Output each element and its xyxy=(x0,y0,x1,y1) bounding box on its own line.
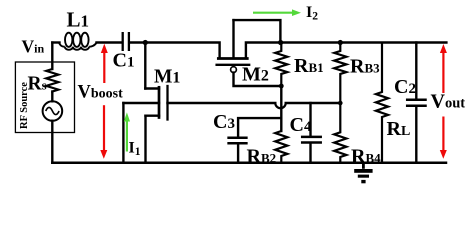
transistor M1 xyxy=(123,43,167,163)
capacitor C2 xyxy=(407,43,425,163)
node C (RB1 bottom / M2 gate / bias net) xyxy=(279,84,284,89)
wire: top rail C1 to M2 left leg xyxy=(130,43,220,58)
voltage arrow Vout down (red) xyxy=(440,117,447,159)
wire: Vin corner down to Rs xyxy=(51,43,53,70)
inductor L1 xyxy=(59,33,97,50)
node E (gate line / RB3-RB4 junction) xyxy=(338,101,343,106)
svg-text:M1: M1 xyxy=(154,66,180,87)
node B (rail / I2 loop / RB1 top) xyxy=(278,40,283,45)
wire hop over RB1-RB2 net xyxy=(275,103,285,108)
voltage arrow Vboost down (red) xyxy=(100,105,107,159)
wire: M1 gate line (right of hop) to node E xyxy=(286,102,341,104)
capacitor C4 xyxy=(302,103,321,163)
resistor RB2 xyxy=(275,131,287,163)
wire: I2 loop xyxy=(234,20,281,42)
RF Source box xyxy=(15,62,74,133)
resistor RL xyxy=(376,43,388,163)
capacitor C3 xyxy=(229,118,282,163)
voltage arrow Vboost up (red) xyxy=(101,44,108,83)
svg-text:RF Source: RF Source xyxy=(19,82,30,129)
svg-text:Rs: Rs xyxy=(28,74,47,95)
current arrow I1 (green) xyxy=(124,112,130,151)
current arrow I2 (green) xyxy=(253,9,301,16)
wire: node C down to RB2 xyxy=(280,86,282,131)
ground xyxy=(354,163,372,183)
voltage arrow Vout up (red) xyxy=(440,44,447,93)
wire: top rail left stub xyxy=(52,41,59,43)
wire: AC source to bottom rail xyxy=(51,121,53,163)
AC source circle with sine xyxy=(43,101,63,121)
svg-text:M2: M2 xyxy=(242,64,269,86)
capacitor C1 xyxy=(123,32,129,51)
wire: M1 gate line (left of hop) xyxy=(168,102,276,104)
resistor RB4 xyxy=(334,103,346,163)
transistor M2 xyxy=(217,20,282,86)
node D (rail / RB3 top) xyxy=(338,40,343,45)
resistor RB1 xyxy=(275,43,287,87)
svg-text:L1: L1 xyxy=(67,8,90,32)
wire: top rail L1 to C1 xyxy=(97,41,122,43)
resistor Rs xyxy=(46,69,58,92)
node A (C1 / M1 drain junction) xyxy=(143,40,148,45)
resistor RB3 xyxy=(334,43,346,104)
wire: Rs to AC source xyxy=(51,92,53,102)
wire: bottom rail xyxy=(52,162,446,165)
wire: top rail M2 right leg to right end xyxy=(246,43,447,58)
